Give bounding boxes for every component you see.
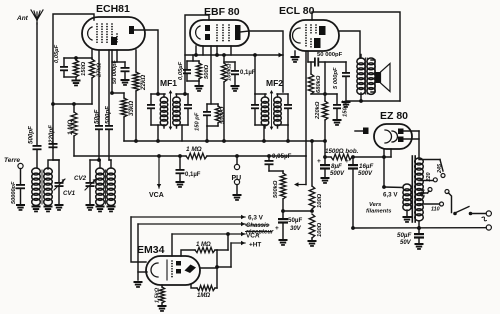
wire tap to switch	[448, 193, 451, 213]
resistor 150 ohm ECH81 cathode	[75, 58, 77, 60]
core MF1 tuning slug	[170, 92, 172, 128]
tap 220	[419, 180, 433, 182]
inductor L2 antenna secondary	[44, 168, 53, 205]
capacitor MF1 primary	[150, 94, 152, 104]
capacitor 150pF detector	[206, 104, 208, 111]
resistor 500k detector	[217, 104, 219, 106]
ground L1	[32, 206, 41, 213]
svg-text:0,1µF: 0,1µF	[185, 172, 201, 178]
tube EZ80	[374, 124, 412, 149]
tap 130	[419, 192, 428, 194]
resistor 1M ohm AVC	[73, 104, 75, 112]
wire 6.3V line	[131, 216, 245, 218]
potentiometer 500k volume	[269, 170, 283, 172]
svg-text:filaments: filaments	[366, 209, 392, 215]
capacitor 0.1uF screen bypass	[224, 61, 235, 63]
resistor 22k ohm	[135, 50, 137, 72]
transformer output secondary	[367, 58, 375, 94]
wire ECL80 triode anode top	[312, 12, 400, 101]
wire EZ80 anodes to transformer	[404, 130, 420, 132]
svg-text:1,5kΩ: 1,5kΩ	[155, 287, 161, 303]
resistor 27k ohm	[91, 50, 93, 59]
capacitor 50000pF coupling	[308, 61, 314, 63]
tube EZ80 anode plates	[398, 129, 404, 135]
capacitor 0.1uF AVC	[178, 154, 182, 158]
ground EM34 cathode	[134, 281, 143, 288]
resistor 1.5k cathode EM34	[161, 285, 163, 287]
wire cathode network bars	[187, 60, 199, 62]
resistor 100ohm lower	[309, 214, 315, 238]
tap 110	[419, 203, 440, 205]
svg-text:150 pF: 150 pF	[195, 112, 201, 131]
wire EBF80 anode to MF2	[241, 31, 250, 32]
capacitor MF2 primary	[254, 94, 256, 104]
svg-text:500kΩ: 500kΩ	[220, 106, 226, 124]
tube ECH81 grid dots	[96, 23, 98, 43]
wire MF1 secondary top bar	[176, 93, 188, 95]
ground cathode EBF80	[198, 81, 200, 85]
wire ECL80 pentode anode to output transformer	[339, 31, 360, 58]
wire bus AVC y156 right	[207, 155, 306, 157]
svg-text:110: 110	[431, 207, 440, 213]
ground 0.1uF AVC	[176, 181, 185, 188]
svg-text:100Ω: 100Ω	[317, 193, 323, 208]
svg-text:EZ 80: EZ 80	[380, 110, 408, 122]
wire antenna lead to coil L1	[36, 150, 38, 168]
svg-text:MF1: MF1	[160, 78, 177, 88]
wire ECH81 grid1 top loop	[53, 14, 94, 148]
core antenna coils	[41, 170, 43, 204]
ground 50uF	[279, 239, 288, 246]
ground PU	[233, 194, 242, 201]
wire wiper arrow	[305, 156, 307, 185]
wire MF1 bottom to bus	[157, 125, 159, 141]
capacitor 500pF antenna series	[33, 145, 42, 150]
capacitor 0.05uF coupling	[267, 154, 271, 158]
svg-text:150Ω: 150Ω	[81, 61, 87, 76]
ground 50uF 50V	[415, 243, 424, 250]
ground terre	[16, 204, 25, 211]
wire ECL80 pin ground stub	[294, 51, 296, 56]
wire bus AVC y141	[124, 140, 325, 142]
svg-text:30V: 30V	[290, 226, 302, 232]
wire primary bottom	[360, 93, 362, 101]
wire VCA line	[172, 233, 245, 235]
wire CV1 bottom to ground	[58, 187, 60, 204]
svg-text:ECL 80: ECL 80	[279, 5, 315, 17]
tube ECH81	[82, 17, 145, 50]
wire chassis line	[138, 223, 245, 225]
svg-text:22kΩ: 22kΩ	[140, 75, 147, 91]
wire chassis to tube	[137, 224, 139, 280]
resistor 1M ohm EM34 bottom	[197, 285, 215, 290]
ground heater winding	[406, 210, 408, 216]
svg-text:500Ω: 500Ω	[204, 64, 210, 79]
svg-text:+: +	[345, 158, 349, 165]
terminal mains bottom	[486, 225, 491, 230]
resistor 1500ohm choke	[331, 154, 352, 160]
ground 5000pF	[342, 101, 351, 108]
wire detector bars	[207, 103, 218, 105]
svg-text:500V: 500V	[330, 171, 345, 177]
capacitor 50uF 30V cathode	[278, 218, 288, 224]
wire speaker return y101	[346, 100, 400, 102]
terminal mains top	[486, 211, 491, 216]
wire 1M to AVC bus	[73, 136, 75, 156]
ground 50000pF	[124, 72, 126, 79]
svg-text:220pF: 220pF	[48, 125, 55, 144]
svg-text:EBF 80: EBF 80	[204, 6, 240, 18]
resistor 1M ohm series AVC	[186, 153, 207, 159]
svg-text:500pF: 500pF	[105, 106, 112, 124]
svg-text:33kΩ: 33kΩ	[128, 101, 135, 116]
tube EM34 grid bars	[166, 260, 168, 280]
arrow VCA stub	[157, 154, 161, 158]
wire 1.5k to ground	[161, 303, 163, 305]
wire MF1 primary top bar	[151, 93, 165, 95]
wire 27k down	[91, 78, 93, 104]
wire MF1 secondary bottom down	[181, 125, 183, 141]
ground L4	[107, 206, 116, 213]
transformer power core	[411, 156, 413, 222]
svg-text:8µF: 8µF	[331, 163, 342, 170]
wire line y55 screen feed	[185, 54, 283, 56]
svg-text:CV1: CV1	[63, 190, 76, 197]
wire MF2 primary top	[255, 93, 266, 95]
wire +HT line	[231, 242, 245, 244]
core MF2 tuning slug	[271, 92, 273, 128]
ground CV2	[86, 204, 95, 211]
wire grid line from 220pF to CV1 node	[52, 148, 54, 160]
resistor 680k grid leak	[310, 62, 312, 74]
svg-text:100kΩ: 100kΩ	[227, 63, 233, 81]
resistor 33k ohm	[123, 93, 125, 98]
svg-text:Chassis: Chassis	[246, 223, 270, 229]
wire bus AVC y156 left	[74, 155, 186, 157]
mains squiggle	[482, 217, 486, 221]
wire pot to 100ohm divider	[283, 210, 312, 212]
wire PU ground	[236, 185, 238, 194]
svg-text:220kΩ: 220kΩ	[315, 101, 321, 120]
svg-text:ECH81: ECH81	[96, 3, 130, 15]
wire VCA branch	[227, 234, 229, 250]
svg-text:130: 130	[421, 189, 427, 198]
tube ECL80	[290, 20, 339, 51]
wire 22k to bus	[135, 91, 137, 141]
tube ECH81 anode bars	[111, 37, 117, 45]
tube EZ80 filament tag	[363, 128, 369, 135]
wire primary bottom to bus	[418, 222, 420, 228]
capacitor 50000pF terre	[16, 184, 25, 189]
resistor 500ohm cathode EBF80	[198, 61, 200, 63]
wire VCA to tube grid	[171, 234, 173, 256]
wire bus to 100ohm	[311, 141, 313, 186]
tube ECH81 cathode arc	[88, 27, 92, 40]
svg-text:50µF: 50µF	[397, 232, 411, 239]
wire MF1 primary bottom bar	[151, 124, 165, 126]
inductor L4 oscillator	[107, 168, 116, 205]
wire pot bottom	[282, 199, 284, 218]
svg-text:50 000pF: 50 000pF	[112, 59, 118, 84]
speaker	[375, 72, 381, 83]
svg-text:Ant: Ant	[16, 15, 29, 22]
svg-text:16µF: 16µF	[359, 163, 373, 170]
svg-text:Vers: Vers	[369, 202, 382, 208]
tube EM34 shadow wedge	[185, 265, 197, 274]
tube EBF80 grid dots	[216, 24, 218, 41]
tube EM34 target plates	[176, 261, 181, 266]
inductor MF2 secondary	[277, 94, 279, 97]
wire to 33k	[112, 92, 124, 94]
svg-text:1MΩ: 1MΩ	[197, 293, 210, 299]
inductor L1 antenna primary	[32, 168, 41, 205]
tap 245	[419, 159, 440, 161]
wire MF2 primary bottom	[255, 124, 266, 126]
wire choke to cathode	[352, 156, 391, 158]
wire 500pF to L4	[108, 130, 110, 160]
wire CV2 bottom to ground	[89, 187, 91, 204]
wire terre cap to ground	[20, 189, 22, 204]
wire 6.3V to tube	[131, 217, 146, 262]
svg-text:100Ω: 100Ω	[317, 222, 323, 237]
tube ECL80 cathode arc	[293, 28, 300, 43]
resistor 220k	[324, 62, 326, 94]
capacitor MF1 secondary	[187, 94, 189, 104]
svg-text:+: +	[317, 158, 321, 165]
svg-text:6,3 V: 6,3 V	[248, 215, 264, 222]
variable capacitor CV1	[55, 182, 64, 187]
tube EBF80	[190, 20, 249, 46]
inductor MF2 primary	[264, 94, 266, 97]
capacitor 50pF	[95, 125, 103, 130]
wire choke left node	[324, 141, 326, 164]
switch mains	[453, 212, 457, 216]
wire L2 top to grid node	[48, 160, 59, 169]
svg-text:500kΩ: 500kΩ	[273, 180, 279, 198]
ground 150 ohm	[75, 77, 77, 80]
wire ECH81 cathode pin down	[111, 50, 113, 93]
wire ECL80 50000pF node	[307, 51, 309, 62]
svg-text:Terre: Terre	[4, 157, 20, 164]
wire MF2 secondary bars	[277, 93, 288, 95]
svg-text:EM34: EM34	[137, 244, 165, 256]
wire grid junction to 1M	[53, 103, 74, 105]
wire MF2 secondary bottom down	[287, 125, 289, 141]
svg-text:245: 245	[437, 163, 443, 174]
tube EZ80 cathode arcs	[385, 130, 391, 143]
wire CV2 top	[89, 160, 91, 182]
inductor MF1 secondary	[176, 94, 178, 97]
svg-text:+: +	[275, 225, 279, 232]
svg-text:50V: 50V	[400, 240, 412, 246]
wire CV2 to osc node	[90, 159, 100, 161]
svg-text:1 MΩ: 1 MΩ	[67, 120, 74, 135]
capacitor 150pF tone	[336, 94, 338, 104]
wire CV1 top	[58, 160, 60, 182]
core oscillator coils	[105, 170, 107, 204]
tube EM34 cathode arc	[151, 263, 158, 277]
wire ECH81 osc anode down	[108, 50, 110, 125]
svg-text:MF2: MF2	[266, 78, 283, 88]
svg-text:0,05µF: 0,05µF	[272, 153, 292, 160]
tube EM34	[146, 256, 200, 285]
svg-text:1500Ω bob.: 1500Ω bob.	[325, 148, 359, 155]
capacitor 5000pF tone anode	[345, 62, 347, 72]
ground 1.5k	[158, 305, 167, 312]
ground CV1	[55, 204, 64, 211]
svg-text:680kΩ: 680kΩ	[316, 75, 322, 93]
wire chassis stub to tube	[138, 271, 147, 273]
tube ECL80 grid dots	[305, 24, 307, 47]
ground 0.1uF	[231, 85, 240, 92]
wire detector to bus	[206, 126, 208, 141]
capacitor 0.05uF cathode EBF80	[186, 61, 188, 69]
tube ECL80 anode bars	[319, 26, 326, 35]
wire ECH81 triode anode to MF1	[134, 30, 158, 92]
wire EM34 target to HT	[200, 267, 217, 269]
wire MF1 secondary to EBF80 grid loop	[185, 15, 209, 94]
wire ECH81 osc grid down	[98, 50, 100, 125]
svg-text:50000pF: 50000pF	[11, 181, 17, 204]
svg-text:500pF: 500pF	[28, 126, 35, 144]
svg-text:6,3 V: 6,3 V	[383, 192, 398, 199]
transformer output core	[364, 58, 366, 94]
wire heater feed from EZ80 filament	[384, 186, 403, 189]
wire EM34 grid top loop	[181, 250, 195, 256]
transformer power heater winding	[403, 184, 411, 211]
wire EZ80 cathode down	[383, 149, 385, 187]
svg-text:1 MΩ: 1 MΩ	[186, 146, 202, 153]
wire ECL80 grid down to wiper	[305, 51, 307, 156]
wire 50pF to L3	[98, 130, 100, 160]
wire ECH81 g2 pin	[116, 50, 118, 62]
wire EBF80 pin stubs	[195, 46, 197, 55]
svg-text:VCA: VCA	[246, 233, 260, 240]
wire 1M right vertical	[215, 249, 217, 251]
wire 33k to bus	[123, 117, 125, 141]
wire secondary to speaker	[371, 60, 375, 73]
antenna Ant	[31, 10, 43, 24]
ground ECL80 pin	[291, 56, 300, 63]
wire ECH81 cathode bars	[64, 57, 92, 59]
svg-text:50µF: 50µF	[288, 217, 302, 224]
wire +HT branch	[230, 243, 232, 267]
svg-text:0,05µF: 0,05µF	[178, 61, 184, 80]
svg-text:CV2: CV2	[74, 175, 87, 182]
tap selector circle	[445, 190, 449, 194]
transformer power primary	[415, 158, 424, 221]
svg-text:VCA: VCA	[149, 192, 164, 199]
svg-text:50 000pF: 50 000pF	[317, 52, 343, 58]
svg-text:+HT: +HT	[249, 242, 261, 249]
capacitor 50uF 50V	[417, 226, 421, 230]
svg-text:500V: 500V	[358, 171, 373, 177]
capacitor 50000pF ECH81 screen	[124, 62, 126, 67]
wire 100k to AVC bus	[223, 82, 225, 141]
ground 8uF	[321, 177, 330, 184]
wire 1M bottom to tube	[191, 285, 197, 288]
capacitor MF2 secondary	[287, 94, 289, 104]
transformer output primary	[357, 58, 365, 94]
resistor 100k ohm screen	[223, 55, 225, 63]
svg-text:0,05µF: 0,05µF	[54, 44, 60, 63]
wire EBF80 diode pin to detector	[210, 46, 212, 104]
wire terre down	[20, 169, 22, 184]
svg-text:220: 220	[426, 173, 432, 183]
tube EBF80 diode plates	[205, 25, 210, 31]
wire bus chassis y228	[353, 227, 486, 229]
inductor MF1 primary	[163, 94, 165, 97]
ground 100ohm	[311, 238, 313, 240]
ground 150pF	[333, 119, 342, 126]
inductor L3 oscillator	[96, 168, 105, 205]
tube EBF80 anode bar	[235, 25, 241, 40]
wire 680k bottom bar	[311, 93, 337, 95]
ground L2	[44, 206, 53, 213]
svg-text:5 000pF: 5 000pF	[333, 67, 339, 89]
svg-text:50pF: 50pF	[94, 109, 101, 124]
tube EBF80 cathode arc	[196, 26, 200, 39]
resistor 100ohm upper	[309, 186, 315, 209]
wire antenna down-lead	[36, 23, 38, 145]
svg-text:0,1µF: 0,1µF	[240, 70, 256, 76]
capacitor 500pF osc	[105, 125, 113, 130]
wire MF1 secondary bottom bar	[176, 124, 188, 126]
capacitor 220pF	[49, 143, 58, 148]
terminal PU	[235, 154, 239, 158]
ground L3	[96, 206, 105, 213]
wire 220k to bus	[324, 120, 326, 141]
